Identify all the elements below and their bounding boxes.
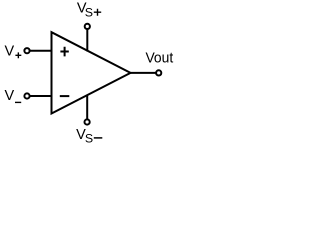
noninverting input plus marker xyxy=(60,47,68,57)
svg-text:S: S xyxy=(85,5,93,19)
terminal VS- xyxy=(85,119,90,124)
wire VS+ supply xyxy=(86,26,88,51)
svg-text:V: V xyxy=(4,43,14,59)
inverting input minus marker xyxy=(60,95,70,97)
svg-text:V: V xyxy=(4,88,14,104)
wire Vout output xyxy=(131,72,159,74)
op-amp U1 xyxy=(52,32,131,113)
wire V- input xyxy=(27,95,53,97)
wire V+ input xyxy=(27,50,53,52)
svg-text:Vout: Vout xyxy=(145,51,173,67)
wire VS- supply xyxy=(86,95,88,123)
terminal VS+ xyxy=(85,24,90,29)
terminal V+ xyxy=(24,48,29,53)
svg-text:S: S xyxy=(85,131,93,145)
terminal V- xyxy=(24,93,29,98)
terminal Vout xyxy=(156,70,161,75)
